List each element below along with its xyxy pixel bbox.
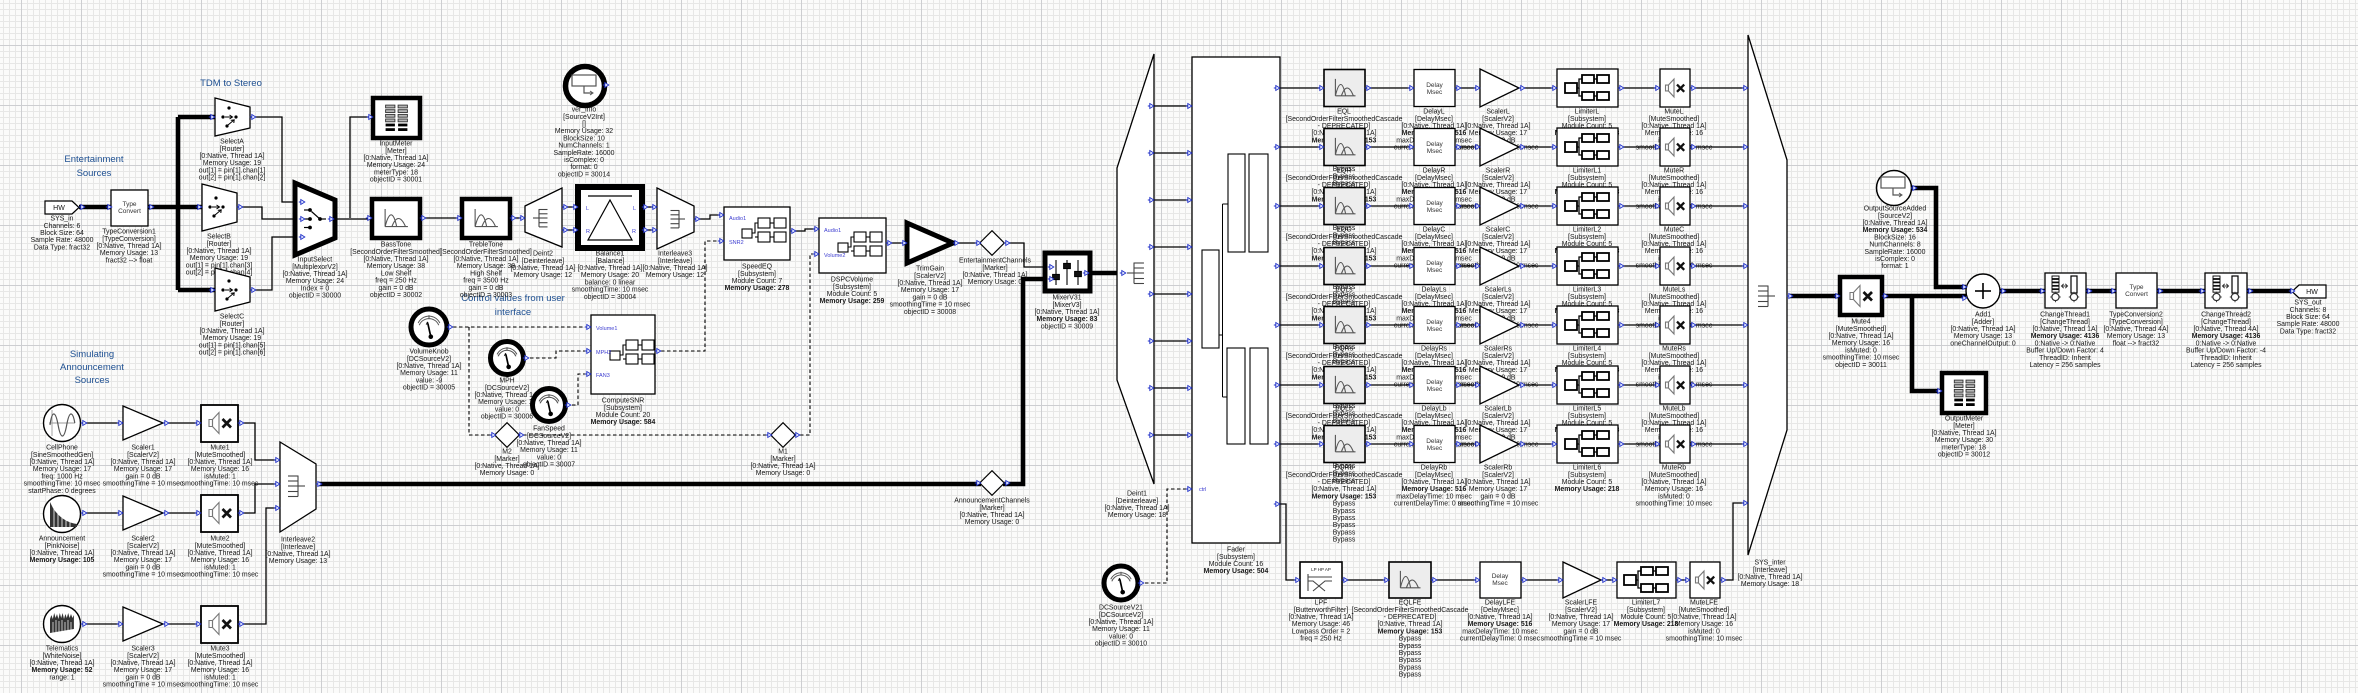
heading: Simulating Announcement Sources <box>60 349 124 386</box>
module EQLs (SecondOrderFilterSmoothedCascade) <box>1286 248 1403 366</box>
svg-text:SampleRate: 16000: SampleRate: 16000 <box>554 150 615 157</box>
svg-text:Memory Usage: 504: Memory Usage: 504 <box>1204 568 1269 575</box>
svg-text:BlockSize: 10: BlockSize: 10 <box>563 135 605 142</box>
wire Deint1 to Fader <box>1154 434 1192 436</box>
heading: Control values from user interface <box>461 293 564 318</box>
svg-text:OutputMeter: OutputMeter <box>1945 416 1984 423</box>
marker AnnouncementChannels <box>954 471 1030 527</box>
wire Scaler to Limiter <box>1519 265 1557 267</box>
svg-text:Balance1: Balance1 <box>596 251 625 258</box>
wire CellPhone to Scaler1 <box>82 422 123 424</box>
module MuteLb (MuteSmoothed) <box>1636 366 1713 449</box>
svg-text:Msec: Msec <box>1427 386 1443 393</box>
wire OutputSourceAdded to Add1 <box>1912 188 1966 287</box>
svg-text:Module Count: 5: Module Count: 5 <box>827 291 878 298</box>
svg-text:Delay: Delay <box>1426 82 1443 89</box>
svg-text:out[1] = pin[1].chan[1]: out[1] = pin[1].chan[1] <box>199 167 266 174</box>
svg-text:[0:Native, Thread 1A]: [0:Native, Thread 1A] <box>454 256 519 263</box>
wire Fader to EQ <box>1280 324 1324 326</box>
module Mute2 (MuteSmoothed) <box>182 495 259 579</box>
svg-text:Interleave2: Interleave2 <box>281 537 315 544</box>
svg-text:SelectB: SelectB <box>207 234 231 241</box>
svg-text:fract32 --> float: fract32 --> float <box>106 257 153 264</box>
svg-text:[SineSmoothedGen]: [SineSmoothedGen] <box>31 452 93 459</box>
svg-text:[0:Native, Thread 1A]: [0:Native, Thread 1A] <box>1312 486 1377 493</box>
svg-text:Memory Usage: 17: Memory Usage: 17 <box>1469 486 1527 493</box>
module ScalerL (ScalerV2) <box>1458 69 1539 152</box>
svg-text:FAN3: FAN3 <box>596 373 610 379</box>
svg-text:TDM to Stereo: TDM to Stereo <box>200 78 262 89</box>
svg-text:EQL: EQL <box>1337 109 1351 116</box>
svg-text:[0:Native, Thread 1A]: [0:Native, Thread 1A] <box>1932 430 1997 437</box>
wire Mute1 to Interleave2 <box>238 423 280 460</box>
wire MixerV31 to Deint1 <box>1088 271 1118 276</box>
svg-text:Memory Usage: 16: Memory Usage: 16 <box>1645 486 1703 493</box>
svg-text:value: 0: value: 0 <box>1109 633 1133 640</box>
svg-text:[0:Native, Thread 1A]: [0:Native, Thread 1A] <box>1089 619 1154 626</box>
svg-text:Memory Usage: 13: Memory Usage: 13 <box>2107 333 2165 340</box>
module Mute1 (MuteSmoothed) <box>182 405 259 488</box>
module DelayRb (DelayMsec) <box>1394 426 1475 508</box>
wire Deint2 R to Balance1 <box>562 229 578 231</box>
svg-text:smoothingTime: 10 msec: smoothingTime: 10 msec <box>182 481 259 488</box>
svg-text:SpeedEQ: SpeedEQ <box>742 264 773 271</box>
svg-text:Bypass: Bypass <box>1399 672 1422 679</box>
svg-text:0:Native -> 0:Native: 0:Native -> 0:Native <box>2196 340 2257 347</box>
svg-text:range: 1: range: 1 <box>49 674 74 681</box>
module DelayR (DelayMsec) <box>1394 129 1475 211</box>
svg-text:freq = 250 Hz: freq = 250 Hz <box>1300 636 1342 643</box>
svg-text:Convert: Convert <box>2125 291 2148 298</box>
svg-text:R: R <box>632 229 636 235</box>
wire EQ to Delay <box>1365 324 1414 326</box>
module MuteR (MuteSmoothed) <box>1636 128 1713 211</box>
svg-text:smoothingTime = 10 msec: smoothingTime = 10 msec <box>103 572 184 579</box>
wire Scaler2 to Mute2 <box>163 512 201 514</box>
module OutputMeter <box>1932 373 1997 459</box>
svg-text:[0:Native, Thread 1A]: [0:Native, Thread 1A] <box>1672 614 1737 621</box>
svg-text:[0:Native, Thread 1A]: [0:Native, Thread 1A] <box>1466 123 1531 130</box>
svg-text:[MixerV3]: [MixerV3] <box>1052 302 1081 309</box>
svg-text:[0:Native, Thread 1A]: [0:Native, Thread 1A] <box>1105 505 1170 512</box>
svg-text:[SourceV2]: [SourceV2] <box>1878 213 1912 220</box>
wire SelectB to InputSelect <box>237 207 295 219</box>
svg-text:[0:Native, Thread 1A]: [0:Native, Thread 1A] <box>188 660 253 667</box>
wire Scaler to Limiter <box>1519 443 1557 445</box>
wire Limiter to Mute <box>1618 443 1660 445</box>
svg-text:objectID = 30008: objectID = 30008 <box>904 309 956 316</box>
svg-text:Data Type: fract32: Data Type: fract32 <box>34 244 90 251</box>
svg-text:Memory Usage: 584: Memory Usage: 584 <box>591 419 656 426</box>
svg-text:Memory Usage: 32: Memory Usage: 32 <box>555 128 613 135</box>
wire TypeConversion2 to ChangeThread2 <box>2157 289 2205 294</box>
svg-text:Module Count: 16: Module Count: 16 <box>1209 561 1264 568</box>
module DelayLs (DelayMsec) <box>1394 248 1475 330</box>
svg-text:MuteC: MuteC <box>1664 227 1684 234</box>
svg-text:[SecondOrderFilterSmoothedCasc: [SecondOrderFilterSmoothedCascade <box>1286 472 1403 479</box>
svg-text:isMuted: 0: isMuted: 0 <box>1688 628 1720 635</box>
svg-text:VolumeKnob: VolumeKnob <box>409 349 448 356</box>
svg-text:[0:Native, Thread 1A]: [0:Native, Thread 1A] <box>1829 333 1894 340</box>
wire Add1 to ChangeThread1 <box>2000 289 2045 294</box>
svg-text:Audio1: Audio1 <box>729 216 746 222</box>
wire InputSelect to BassTone <box>335 218 372 220</box>
svg-text:[0:Native, Thread 1A]: [0:Native, Thread 1A] <box>111 660 176 667</box>
wire Scaler to Limiter <box>1519 87 1557 89</box>
svg-text:gain = 0 dB: gain = 0 dB <box>125 564 160 571</box>
svg-text:[SecondOrderFilterSmoothedCasc: [SecondOrderFilterSmoothedCascade <box>1286 116 1403 123</box>
svg-text:[0:Native, Thread 4A]: [0:Native, Thread 4A] <box>2194 326 2259 333</box>
svg-text:smoothingTime: 10 msec: smoothingTime: 10 msec <box>572 287 649 294</box>
svg-text:Memory Usage: 46: Memory Usage: 46 <box>1292 621 1350 628</box>
svg-text:smoothingTime: 10 msec: smoothingTime: 10 msec <box>24 481 101 488</box>
svg-text:ScalerLb: ScalerLb <box>1484 406 1511 413</box>
module TypeConversion1 <box>97 190 162 264</box>
svg-text:ChangeThread1: ChangeThread1 <box>2040 312 2090 319</box>
svg-text:DelayLFE: DelayLFE <box>1485 600 1516 607</box>
svg-text:Bypass: Bypass <box>1333 515 1356 522</box>
svg-text:[0:Native, Thread 1A]: [0:Native, Thread 1A] <box>1863 220 1928 227</box>
svg-text:Deint1: Deint1 <box>1127 491 1147 498</box>
svg-text:[Subsystem]: [Subsystem] <box>1217 554 1255 561</box>
svg-text:SampleRate: 16000: SampleRate: 16000 <box>1865 249 1926 256</box>
svg-text:Sources: Sources <box>77 168 112 179</box>
wire Fader to EQ <box>1280 87 1324 89</box>
svg-text:LimiterL6: LimiterL6 <box>1573 465 1602 472</box>
module SelectA (Router) <box>199 98 266 182</box>
svg-text:[0:Native, Thread 1A]: [0:Native, Thread 1A] <box>578 265 643 272</box>
wire EQ to Delay <box>1365 87 1414 89</box>
svg-text:meterType: 18: meterType: 18 <box>374 169 418 176</box>
svg-text:Memory Usage: 17: Memory Usage: 17 <box>114 466 172 473</box>
svg-text:balance: 0 linear: balance: 0 linear <box>585 279 636 286</box>
wire Mute to SYS_inter <box>1690 443 1748 445</box>
svg-text:Entertainment: Entertainment <box>64 154 124 165</box>
wire Limiter to Mute <box>1618 146 1660 148</box>
svg-text:Module Count: 5: Module Count: 5 <box>1621 614 1672 621</box>
svg-text:[Adder]: [Adder] <box>1972 319 1994 326</box>
svg-text:DelayLs: DelayLs <box>1422 287 1447 294</box>
svg-text:objectID = 30000: objectID = 30000 <box>289 293 341 300</box>
svg-text:HW: HW <box>2306 289 2318 296</box>
svg-text:[Subsystem]: [Subsystem] <box>1568 175 1606 182</box>
svg-text:EQLFE: EQLFE <box>1399 600 1422 607</box>
svg-text:DCSourceV21: DCSourceV21 <box>1099 605 1143 612</box>
svg-text:[0:Native, Thread 1A]: [0:Native, Thread 1A] <box>475 392 540 399</box>
svg-text:TrebleTone: TrebleTone <box>469 242 503 249</box>
svg-text:[DelayMsec]: [DelayMsec] <box>1415 175 1453 182</box>
svg-text:[Interleave]: [Interleave] <box>1753 567 1787 574</box>
svg-text:TypeConversion1: TypeConversion1 <box>102 229 156 236</box>
wire SelectA to InputSelect <box>250 117 295 202</box>
module SYS_in (HW input) <box>31 201 94 251</box>
svg-text:[DelayMsec]: [DelayMsec] <box>1415 116 1453 123</box>
svg-text:[TypeConversion]: [TypeConversion] <box>102 236 156 243</box>
svg-text:LimiterL5: LimiterL5 <box>1573 406 1602 413</box>
svg-text:isMuted: 1: isMuted: 1 <box>204 674 236 681</box>
svg-text:[0:Native, Thread 1A]: [0:Native, Thread 1A] <box>751 463 816 470</box>
svg-text:LimiterL2: LimiterL2 <box>1573 227 1602 234</box>
svg-text:[Meter]: [Meter] <box>1953 423 1975 430</box>
module LPF (ButterworthFilter) <box>1289 562 1354 643</box>
wire Deint1 to Fader <box>1154 340 1192 342</box>
svg-text:[Subsystem]: [Subsystem] <box>1568 413 1606 420</box>
svg-text:Memory Usage: 24: Memory Usage: 24 <box>367 162 425 169</box>
svg-text:[0:Native, Thread 1A]: [0:Native, Thread 1A] <box>475 463 540 470</box>
svg-text:[SecondOrderFilterSmoothedCasc: [SecondOrderFilterSmoothedCascade <box>1286 234 1403 241</box>
wire Mute to SYS_inter <box>1690 384 1748 386</box>
svg-text:Bypass: Bypass <box>1399 643 1422 650</box>
svg-text:Memory Usage: 16: Memory Usage: 16 <box>191 667 249 674</box>
svg-text:Msec: Msec <box>1427 326 1443 333</box>
svg-text:EQRb: EQRb <box>1335 465 1354 472</box>
svg-text:[ScalerV2]: [ScalerV2] <box>1482 116 1514 123</box>
svg-text:Bypass: Bypass <box>1399 657 1422 664</box>
svg-text:Memory Usage: 13: Memory Usage: 13 <box>269 558 327 565</box>
svg-text:gain = 0 dB: gain = 0 dB <box>468 285 503 292</box>
svg-text:Memory Usage: 259: Memory Usage: 259 <box>820 298 885 305</box>
wire Mute4 to Add1 <box>1882 294 1966 299</box>
svg-text:objectID = 30005: objectID = 30005 <box>403 385 455 392</box>
svg-text:ctrl: ctrl <box>1199 487 1206 493</box>
wire Deint1 to Fader <box>1154 387 1192 389</box>
svg-text:[MultiplexorV2]: [MultiplexorV2] <box>292 264 338 271</box>
svg-text:[DelayMsec]: [DelayMsec] <box>1415 353 1453 360</box>
svg-text:Audio1: Audio1 <box>824 228 841 234</box>
svg-text:Memory Usage: 12: Memory Usage: 12 <box>646 272 704 279</box>
svg-text:Scaler3: Scaler3 <box>131 646 155 653</box>
svg-text:[0:Native, Thread 1A]: [0:Native, Thread 1A] <box>517 440 582 447</box>
svg-text:objectID = 30010: objectID = 30010 <box>1095 641 1147 648</box>
svg-text:format: 1: format: 1 <box>1881 263 1908 270</box>
svg-text:[DCSourceV2]: [DCSourceV2] <box>485 385 529 392</box>
svg-text:[ScalerV2]: [ScalerV2] <box>1482 472 1514 479</box>
module ScalerLFE (ScalerV2) <box>1541 562 1622 643</box>
svg-text:[0:Native, Thread 1A]: [0:Native, Thread 1A] <box>364 256 429 263</box>
module TypeConversion2 <box>2104 273 2169 347</box>
svg-text:[Meter]: [Meter] <box>385 148 407 155</box>
svg-text:Block Size: 64: Block Size: 64 <box>40 230 84 237</box>
svg-text:[Router]: [Router] <box>220 146 245 153</box>
svg-text:[MuteSmoothed]: [MuteSmoothed] <box>1649 472 1700 479</box>
svg-text:isMuted: 1: isMuted: 1 <box>204 473 236 480</box>
svg-text:Memory Usage: 12: Memory Usage: 12 <box>514 272 572 279</box>
svg-text:[MuteSmoothed]: [MuteSmoothed] <box>1649 116 1700 123</box>
svg-text:[SecondOrderFilterSmoothedCasc: [SecondOrderFilterSmoothedCascade <box>1286 353 1403 360</box>
svg-text:EQR: EQR <box>1337 168 1352 175</box>
wire Delay to Scaler <box>1455 324 1480 326</box>
module EQLb (SecondOrderFilterSmoothedCascade) <box>1286 367 1403 485</box>
svg-text:[0:Native, Thread 1A]: [0:Native, Thread 1A] <box>397 363 462 370</box>
module LimiterL6 (Subsystem) <box>1551 425 1624 493</box>
svg-text:gain = 0 dB: gain = 0 dB <box>125 473 160 480</box>
svg-text:interface: interface <box>495 307 531 318</box>
module ver_info (SourceV2Int) <box>554 67 615 179</box>
svg-text:ScalerLFE: ScalerLFE <box>1565 600 1598 607</box>
wire ChangeThread2 to SYS_out <box>2247 289 2292 294</box>
svg-text:Channels: 6: Channels: 6 <box>44 223 81 230</box>
svg-text:smoothingTime = 10 msec: smoothingTime = 10 msec <box>103 481 184 488</box>
svg-text:smoothingTime: 10 msec: smoothingTime: 10 msec <box>1823 355 1900 362</box>
svg-text:Memory Usage: 20: Memory Usage: 20 <box>581 272 639 279</box>
svg-text:R: R <box>586 229 590 235</box>
module ComputeSNR (Subsystem) <box>585 315 661 426</box>
svg-text:Memory Usage: 17: Memory Usage: 17 <box>33 466 91 473</box>
wire EQ to Delay <box>1365 384 1414 386</box>
svg-text:OutputSourceAdded: OutputSourceAdded <box>1864 206 1927 213</box>
module MPH (DCSourceV2) <box>475 342 540 421</box>
module Scaler1 (ScalerV2) <box>103 406 184 488</box>
svg-text:Memory Usage: 218: Memory Usage: 218 <box>1555 486 1620 493</box>
svg-text:Memory Usage: 17: Memory Usage: 17 <box>114 667 172 674</box>
svg-text:objectID = 30009: objectID = 30009 <box>1041 323 1093 330</box>
svg-text:[SourceV2Int]: [SourceV2Int] <box>563 114 605 121</box>
module LimiterL (Subsystem) <box>1551 69 1624 137</box>
wire FanSpeed to ComputeSNR FAN3 (dashed) <box>566 374 591 405</box>
svg-text:[]: [] <box>582 121 586 128</box>
svg-text:[0:Native, Thread 1A]: [0:Native, Thread 1A] <box>960 512 1025 519</box>
svg-text:ScalerL: ScalerL <box>1486 109 1510 116</box>
svg-text:[0:Native, Thread 1A]: [0:Native, Thread 1A] <box>1466 301 1531 308</box>
heading: Entertainment Sources <box>64 154 124 179</box>
svg-text:[SecondOrderFilterSmoothedCasc: [SecondOrderFilterSmoothedCascade <box>1286 294 1403 301</box>
svg-text:Data Type: fract32: Data Type: fract32 <box>2280 328 2336 335</box>
svg-text:isComplex: 0: isComplex: 0 <box>1875 256 1915 263</box>
svg-text:meterType: 18: meterType: 18 <box>1942 444 1986 451</box>
wire MuteLFE to SYS_inter <box>1720 503 1748 580</box>
svg-text:[MuteSmoothed]: [MuteSmoothed] <box>1649 175 1700 182</box>
svg-text:Bypass: Bypass <box>1333 508 1356 515</box>
svg-text:MuteLb: MuteLb <box>1663 406 1686 413</box>
wire Fader to EQ <box>1280 443 1324 445</box>
module MuteC (MuteSmoothed) <box>1636 187 1713 270</box>
svg-text:Memory Usage: 0: Memory Usage: 0 <box>480 470 535 477</box>
svg-text:ThreadID: Inherit: ThreadID: Inherit <box>2039 355 2091 362</box>
svg-text:objectID = 30003: objectID = 30003 <box>460 292 512 299</box>
svg-text:EQRs: EQRs <box>1335 346 1354 353</box>
svg-text:[0:Native, Thread 1A]: [0:Native, Thread 1A] <box>283 271 348 278</box>
svg-text:NumChannels: 8: NumChannels: 8 <box>1869 242 1920 249</box>
svg-text:NumChannels: 1: NumChannels: 1 <box>558 143 609 150</box>
svg-text:CellPhone: CellPhone <box>46 445 78 452</box>
wire Fader to EQ <box>1280 205 1324 207</box>
svg-text:[ScalerV2]: [ScalerV2] <box>1482 175 1514 182</box>
svg-text:Memory Usage: 52: Memory Usage: 52 <box>32 667 93 674</box>
svg-text:Memory Usage: 17: Memory Usage: 17 <box>1469 248 1527 255</box>
svg-text:TypeConversion2: TypeConversion2 <box>2109 312 2163 319</box>
module MuteLFE (MuteSmoothed) <box>1666 562 1743 643</box>
svg-text:out[2] = pin[1].chan[6]: out[2] = pin[1].chan[6] <box>199 350 266 357</box>
svg-text:[ScalerV2]: [ScalerV2] <box>1482 413 1514 420</box>
svg-text:freq = 250 Hz: freq = 250 Hz <box>375 278 417 285</box>
svg-text:[Subsystem]: [Subsystem] <box>1568 353 1606 360</box>
svg-text:MuteRs: MuteRs <box>1662 346 1686 353</box>
svg-text:gain = 0 dB: gain = 0 dB <box>912 294 947 301</box>
wire Announcement to Scaler2 <box>82 512 123 514</box>
module OutputSourceAdded (SourceV2) <box>1863 171 1928 271</box>
module Telematics (WhiteNoise) <box>30 606 95 682</box>
svg-text:EQLs: EQLs <box>1335 287 1353 294</box>
svg-text:maxDelayTime: 10 msec: maxDelayTime: 10 msec <box>1462 628 1538 635</box>
svg-text:FanSpeed: FanSpeed <box>533 426 565 433</box>
svg-text:Memory Usage: 13: Memory Usage: 13 <box>100 250 158 257</box>
svg-text:maxDelayTime: 10 msec: maxDelayTime: 10 msec <box>1396 493 1472 500</box>
svg-text:[0:Native, Thread 1A]: [0:Native, Thread 1A] <box>511 265 576 272</box>
svg-text:Memory Usage: 0: Memory Usage: 0 <box>968 279 1023 286</box>
svg-text:M1: M1 <box>778 449 788 456</box>
wire Balance1 R to Interleave3 <box>642 229 657 231</box>
wire ComputeSNR to SpeedEQ SNR2 (dashed) <box>655 241 724 351</box>
svg-text:[Subsystem]: [Subsystem] <box>1627 607 1665 614</box>
svg-text:[Deinterleave]: [Deinterleave] <box>1116 498 1159 505</box>
svg-text:DelayRs: DelayRs <box>1421 346 1448 353</box>
svg-text:[0:Native, Thread 1A]: [0:Native, Thread 1A] <box>200 153 265 160</box>
svg-text:MuteL: MuteL <box>1664 109 1683 116</box>
svg-text:Simulating: Simulating <box>70 349 114 360</box>
svg-text:LimiterL4: LimiterL4 <box>1573 346 1602 353</box>
svg-text:MixerV31: MixerV31 <box>1052 295 1081 302</box>
module Balance1 <box>572 187 649 301</box>
svg-text:Lowpass Order = 2: Lowpass Order = 2 <box>1292 628 1351 635</box>
svg-text:0:Native -> 0:Native: 0:Native -> 0:Native <box>2035 340 2096 347</box>
svg-text:DelayLb: DelayLb <box>1421 406 1446 413</box>
svg-text:gain = 0 dB: gain = 0 dB <box>1480 493 1515 500</box>
svg-text:smoothingTime = 10 msec: smoothingTime = 10 msec <box>1458 501 1539 508</box>
module EQL (SecondOrderFilterSmoothedCascade) <box>1286 70 1403 188</box>
wire Deint1 to Fader <box>1154 152 1192 154</box>
svg-text:[0:Native, Thread 1A]: [0:Native, Thread 1A] <box>1402 479 1467 486</box>
svg-text:Msec: Msec <box>1427 148 1443 155</box>
svg-text:Volume2: Volume2 <box>824 253 845 259</box>
svg-text:isMuted: 0: isMuted: 0 <box>1845 347 1877 354</box>
svg-text:Deint2: Deint2 <box>533 251 553 258</box>
wire junction to InputMeter <box>350 117 373 218</box>
svg-text:value: -9: value: -9 <box>416 377 443 384</box>
svg-text:ChangeThread2: ChangeThread2 <box>2201 312 2251 319</box>
module DelayC (DelayMsec) <box>1394 188 1475 270</box>
svg-text:[0:Native, Thread 1A]: [0:Native, Thread 1A] <box>1642 479 1707 486</box>
svg-text:ScalerRs: ScalerRs <box>1484 346 1513 353</box>
svg-text:Delay: Delay <box>1426 438 1443 445</box>
wire M1 to DSPCVolume Volume2 (dashed) <box>794 254 819 435</box>
svg-text:[DCSourceV2]: [DCSourceV2] <box>527 433 571 440</box>
svg-text:Memory Usage: 17: Memory Usage: 17 <box>1469 367 1527 374</box>
svg-text:[Balance]: [Balance] <box>596 258 625 265</box>
wire EQ to Delay <box>1365 146 1414 148</box>
svg-text:[Subsystem]: [Subsystem] <box>604 405 642 412</box>
module SpeedEQ (Subsystem) <box>718 207 796 292</box>
wire Limiter to Mute <box>1618 265 1660 267</box>
wire Limiter to Mute <box>1618 87 1660 89</box>
svg-text:out[1] = pin[1].chan[3]: out[1] = pin[1].chan[3] <box>186 262 253 269</box>
svg-text:Memory Usage: 153: Memory Usage: 153 <box>1378 628 1443 635</box>
svg-text:smoothingTime = 10 msec: smoothingTime = 10 msec <box>1541 636 1622 643</box>
marker M2 <box>475 423 540 478</box>
svg-text:Scaler1: Scaler1 <box>131 445 155 452</box>
svg-text:- DEPRECATED]: - DEPRECATED] <box>1384 614 1437 621</box>
module MuteRb (MuteSmoothed) <box>1636 425 1713 508</box>
svg-text:[ScalerV2]: [ScalerV2] <box>127 543 159 550</box>
svg-text:Memory Usage: 218: Memory Usage: 218 <box>1614 621 1679 628</box>
wire EntertainmentChannels to MixerV31 <box>1007 243 1049 267</box>
svg-text:[0:Native, Thread 1A]: [0:Native, Thread 1A] <box>898 280 963 287</box>
wire Scaler to Limiter <box>1519 146 1557 148</box>
svg-text:[DelayMsec]: [DelayMsec] <box>1481 607 1519 614</box>
svg-text:[SecondOrderFilterSmoothed]: [SecondOrderFilterSmoothed] <box>350 249 442 256</box>
wire junction to OutputMeter <box>1912 296 1940 391</box>
svg-text:- DEPRECATED]: - DEPRECATED] <box>1318 479 1371 486</box>
wire EQ to Delay <box>1365 443 1414 445</box>
